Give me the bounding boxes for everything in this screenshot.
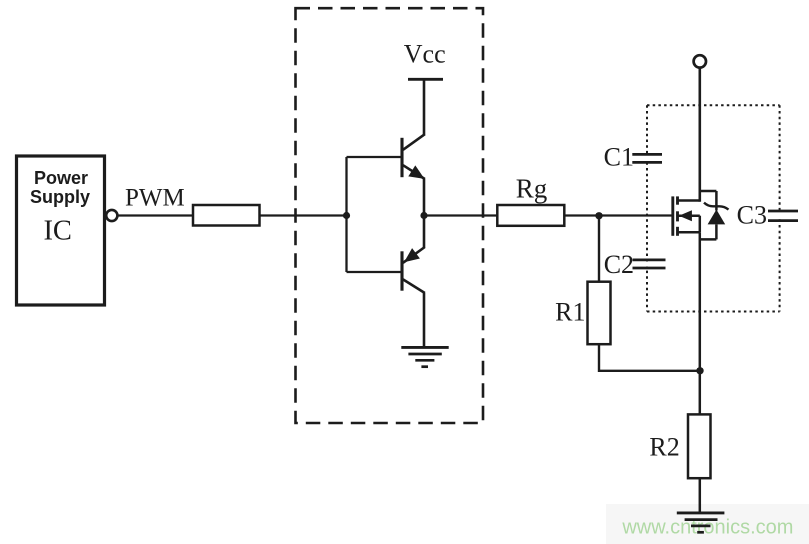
wire Q1 emitter to output node xyxy=(423,179,426,216)
Vcc supply bar xyxy=(408,78,443,81)
svg-text:R1: R1 xyxy=(555,297,585,326)
svg-text:C2: C2 xyxy=(604,250,634,279)
wire Q1 base xyxy=(347,156,403,158)
driver stage dashed box xyxy=(296,8,484,423)
svg-text:Supply: Supply xyxy=(30,187,90,207)
power supply IC box U1 xyxy=(17,156,105,305)
svg-text:IC: IC xyxy=(43,215,72,246)
wire drain vertical xyxy=(698,68,701,201)
svg-text:R2: R2 xyxy=(649,433,679,462)
svg-text:C1: C1 xyxy=(604,143,634,172)
wire R1 bottom to source junction xyxy=(599,344,700,371)
node driver output xyxy=(420,212,427,219)
wire R2 to ground xyxy=(699,478,702,513)
transistor Q1 NPN (upper) xyxy=(402,134,425,179)
node source junction xyxy=(696,367,703,374)
resistor R (series input, unlabeled) xyxy=(193,205,260,226)
node gate junction xyxy=(595,212,602,219)
ground (driver stage) xyxy=(401,347,448,366)
wire output node to Q2 emitter xyxy=(423,216,426,248)
node input junction xyxy=(343,212,350,219)
ground (output divider) xyxy=(677,513,725,532)
wire junction to R2 xyxy=(699,371,702,415)
wire MOSFET source down to junction xyxy=(699,232,702,371)
wire driver output to Rg xyxy=(424,214,497,216)
wire Vcc to Q1 collector xyxy=(423,79,426,135)
wire pin to series resistor xyxy=(118,214,194,216)
resistor R2 xyxy=(688,414,711,478)
watermark background band xyxy=(606,504,809,544)
transistor Q2 PNP (lower) xyxy=(402,247,425,293)
terminal drain (top) xyxy=(694,55,706,67)
svg-text:Vcc: Vcc xyxy=(404,40,446,69)
capacitor C2 xyxy=(604,250,666,279)
capacitor C3 xyxy=(737,201,798,230)
svg-text:PWM: PWM xyxy=(125,184,185,211)
terminal PWM output pin xyxy=(106,210,117,221)
svg-text:Power: Power xyxy=(34,168,88,188)
wire gate node down to R1 xyxy=(598,216,600,282)
wire Q2 collector to ground xyxy=(423,293,426,348)
body diode D1 xyxy=(700,191,729,239)
resistor Rg xyxy=(497,205,564,226)
wire input bus (left vertical) xyxy=(345,157,347,272)
wire Rg to gate node xyxy=(564,214,599,216)
capacitor C1 xyxy=(604,143,662,172)
parasitic capacitance dotted box xyxy=(647,105,780,311)
wire resistor to driver input xyxy=(260,214,347,216)
resistor R1 xyxy=(588,282,611,345)
wire gate node to MOSFET gate xyxy=(599,214,673,216)
wire Q2 base xyxy=(347,271,403,273)
svg-text:C3: C3 xyxy=(737,201,767,230)
svg-text:Rg: Rg xyxy=(516,173,548,203)
MOSFET Q3 (N-channel) xyxy=(673,196,700,235)
